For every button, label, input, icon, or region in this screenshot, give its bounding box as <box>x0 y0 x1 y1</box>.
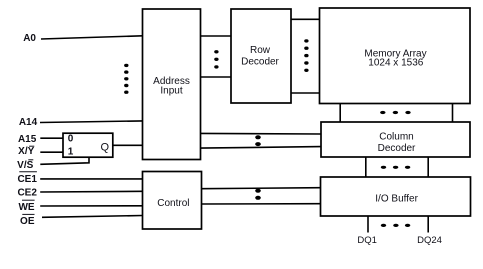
svg-text:Row: Row <box>250 45 271 56</box>
svg-text:Decoder: Decoder <box>378 143 416 154</box>
svg-text:WE: WE <box>18 202 34 213</box>
svg-text:I/O Buffer: I/O Buffer <box>375 194 418 205</box>
svg-text:A14: A14 <box>19 117 38 128</box>
svg-text:Decoder: Decoder <box>241 56 279 67</box>
svg-text:A15: A15 <box>18 134 37 145</box>
svg-text:DQ24: DQ24 <box>417 235 442 246</box>
svg-text:1024 x 1536: 1024 x 1536 <box>368 58 423 69</box>
svg-text:CE1: CE1 <box>17 174 37 185</box>
svg-text:OE: OE <box>20 216 35 227</box>
svg-text:Q: Q <box>101 142 110 154</box>
svg-text:X/Y: X/Y <box>18 146 34 157</box>
svg-text:0: 0 <box>68 134 74 145</box>
svg-text:Control: Control <box>157 198 189 209</box>
svg-text:V/S: V/S <box>17 160 33 171</box>
svg-text:Column: Column <box>379 131 413 142</box>
svg-text:1: 1 <box>68 146 74 157</box>
svg-text:A0: A0 <box>23 33 36 44</box>
svg-text:CE2: CE2 <box>17 188 37 199</box>
svg-text:Input: Input <box>160 86 182 97</box>
svg-text:DQ1: DQ1 <box>357 235 377 246</box>
